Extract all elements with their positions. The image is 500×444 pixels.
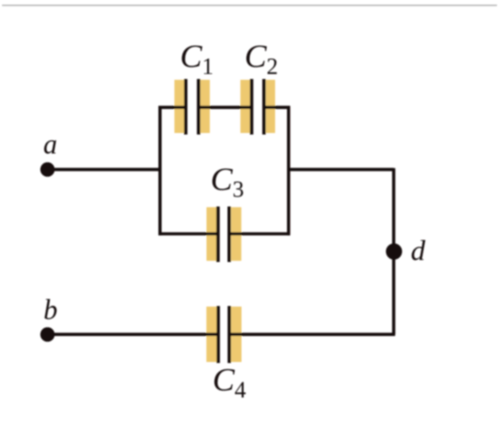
wire: node a to parallel box left	[48, 168, 161, 171]
capacitor C3 plates	[216, 207, 219, 263]
svg-text:C4: C4	[213, 363, 247, 403]
svg-text:b: b	[44, 295, 58, 326]
wire: vertical through node d	[392, 168, 395, 334]
wire: C3 right plate to box right	[229, 232, 290, 235]
wire: C4 right plate to right vertical	[229, 333, 395, 336]
node b terminal dot	[40, 327, 54, 341]
wire: C2 right plate to box right	[264, 106, 290, 109]
capacitor C2 plates	[250, 79, 253, 135]
wire: C1 right plate to C2 left plate	[199, 106, 252, 109]
wire: box right to node d corner	[289, 168, 394, 171]
svg-text:C2: C2	[245, 39, 279, 79]
wire: node b to C4 left plate	[48, 333, 219, 336]
svg-text:a: a	[43, 130, 57, 161]
wire: box left vertical	[158, 106, 161, 235]
node a terminal dot	[40, 162, 54, 176]
node d junction dot	[386, 243, 402, 259]
top hairline rule	[2, 5, 497, 7]
svg-text:C1: C1	[180, 39, 214, 79]
svg-text:d: d	[411, 235, 426, 267]
capacitor C1 plates	[184, 79, 187, 135]
svg-text:C3: C3	[211, 162, 245, 202]
capacitor C2 plate highlights	[240, 80, 250, 133]
capacitor C4 plates	[216, 306, 219, 363]
wire: box top segment to C1 left plate	[159, 106, 186, 109]
wire: box bottom segment to C3 left plate	[159, 232, 218, 235]
capacitor C4 plate highlights	[206, 307, 216, 362]
capacitor C1 plate highlights	[174, 80, 184, 133]
wire: box right vertical	[287, 106, 290, 235]
capacitor C3 plate highlights	[207, 207, 217, 261]
